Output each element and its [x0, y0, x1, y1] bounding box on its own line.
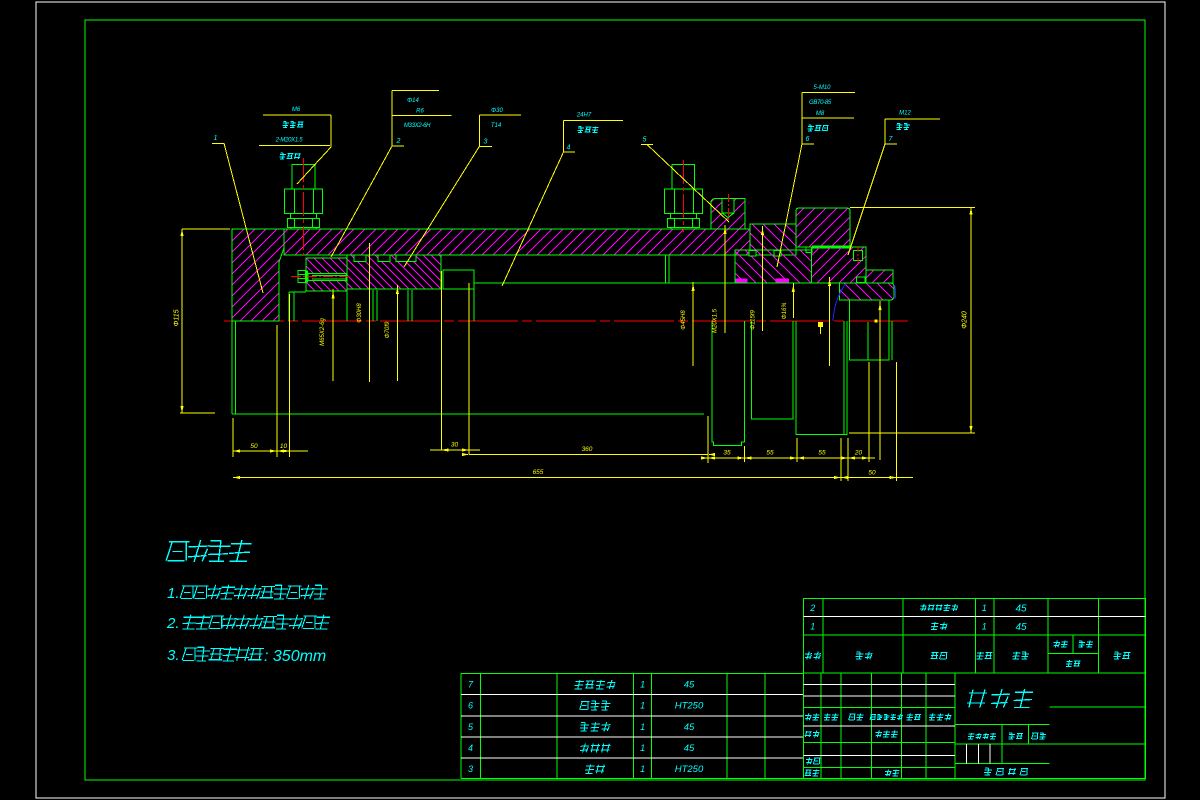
ext line cushion right	[468, 283, 470, 455]
rod seal (magenta)	[735, 278, 747, 283]
svg-text:45: 45	[684, 722, 695, 733]
balloon 4 + spec	[564, 120, 624, 122]
oil port boss on barrel (hatched)	[711, 199, 745, 230]
callout: port 1 thread spec	[263, 114, 331, 116]
svg-text:1: 1	[640, 743, 645, 753]
svg-text:5: 5	[643, 137, 647, 144]
technical requirements title	[166, 540, 252, 562]
piston rod profile	[289, 291, 306, 293]
rod seal 2 (magenta)	[776, 278, 790, 283]
left end cap (hatched section)	[232, 229, 284, 321]
svg-text:4: 4	[468, 743, 473, 753]
svg-text:Φ115f9: Φ115f9	[751, 310, 757, 330]
svg-text:Φ45H8: Φ45H8	[681, 310, 687, 330]
svg-text:2.: 2.	[166, 615, 180, 632]
dim: 30	[430, 449, 480, 451]
svg-text:M65X2-6g: M65X2-6g	[320, 317, 326, 345]
gland nose ring (hatched)	[866, 270, 893, 283]
svg-text:GB70-85: GB70-85	[809, 100, 832, 106]
piston rod left anchor block (hatched)	[306, 258, 347, 291]
svg-text:45: 45	[684, 743, 695, 754]
dimension D240 (right vertical)	[970, 208, 972, 434]
piston retaining bolt	[298, 270, 306, 282]
svg-text:35: 35	[723, 450, 731, 457]
svg-text:R6: R6	[416, 109, 424, 115]
fitting 2 centerline	[682, 160, 684, 232]
svg-text:4: 4	[567, 145, 571, 152]
bolt centerline	[291, 275, 350, 277]
title header row	[805, 652, 821, 660]
svg-text:T14: T14	[491, 123, 502, 129]
svg-text:1: 1	[982, 622, 987, 632]
revision header text	[805, 714, 820, 721]
cylinder barrel wall (hatched strip)	[284, 229, 750, 255]
dim row 2: 35 / 55 / 55 / 20	[704, 457, 875, 459]
svg-text:2: 2	[809, 603, 815, 613]
svg-text:: 350mm: : 350mm	[264, 648, 326, 665]
balloon 6 + spec	[802, 91, 855, 93]
centerline tick	[875, 320, 878, 323]
svg-text:M8: M8	[816, 111, 825, 117]
port hole centerline	[728, 194, 730, 220]
piston rod end nut (hatched)	[839, 283, 894, 300]
barrel outside silhouette (lower half)	[231, 321, 233, 414]
svg-text:1: 1	[982, 603, 987, 613]
drawing name cell: hydraulic cylinder	[967, 689, 1033, 708]
rod surface line	[474, 282, 847, 284]
svg-text:1: 1	[214, 135, 218, 142]
svg-text:1: 1	[640, 701, 645, 711]
svg-text:655: 655	[533, 469, 544, 476]
title block outer	[803, 598, 1145, 778]
rod end nut lower silhouette	[849, 300, 888, 360]
dim line right head	[829, 277, 831, 366]
title block part rows + header columns	[822, 598, 824, 673]
svg-text:3: 3	[484, 139, 488, 146]
svg-text:55: 55	[766, 450, 774, 457]
oil port fitting 1 (left)	[292, 164, 315, 189]
svg-text:HT250: HT250	[675, 764, 704, 775]
parts list table (BOM)	[460, 673, 462, 778]
sleeve seal groove notches	[749, 251, 756, 257]
svg-text:Φ115: Φ115	[174, 309, 181, 326]
cushion collar	[443, 270, 474, 289]
lower silhouette: head mirror	[796, 321, 847, 435]
svg-text:Φ16¾: Φ16¾	[782, 303, 788, 320]
svg-text:Φ14: Φ14	[407, 98, 419, 104]
svg-text:45: 45	[1015, 622, 1027, 633]
svg-text:M20X1.5: M20X1.5	[713, 308, 719, 333]
lower silhouette: port boss mirror	[712, 321, 745, 446]
fitting 1 centerline	[303, 158, 305, 256]
thread run-out spline right (blue)	[895, 285, 896, 299]
guide sleeve / gland body (hatched)	[735, 250, 812, 283]
svg-text:M6: M6	[292, 107, 301, 113]
svg-text:50: 50	[250, 443, 258, 450]
main centerline (red dash-dot)	[224, 320, 908, 322]
ext line cushion left	[440, 271, 442, 450]
piston (hatched)	[347, 255, 441, 289]
svg-text:1: 1	[640, 764, 645, 774]
oil port fitting 2 (right)	[672, 164, 695, 189]
svg-text:2-M20X1.5: 2-M20X1.5	[275, 138, 304, 144]
callout: port 2 spec + balloon 2	[391, 90, 393, 146]
dim row: 50	[233, 450, 308, 452]
svg-text:1: 1	[810, 622, 815, 632]
port thread hole in boss	[722, 199, 734, 214]
dim line D16f7	[792, 283, 794, 318]
svg-text:M12: M12	[899, 111, 911, 117]
dim: 360	[469, 454, 708, 456]
svg-text:Φ240: Φ240	[962, 311, 969, 329]
svg-text:30: 30	[451, 442, 459, 449]
svg-text:6: 6	[806, 136, 810, 143]
balloon 3 + spec	[479, 114, 521, 116]
thread run-out spline (blue)	[833, 283, 846, 321]
svg-text:24H7: 24H7	[576, 113, 592, 119]
head lower section (hatched)	[812, 247, 867, 283]
dim line M20X1.5	[724, 225, 726, 333]
svg-text:1: 1	[640, 722, 645, 732]
set screw tip notch	[856, 277, 865, 283]
dim line D70f9	[396, 285, 398, 381]
ext line nut OD	[879, 301, 881, 460]
svg-text:1.: 1.	[167, 585, 180, 602]
dim line D30H8	[368, 243, 370, 382]
svg-text:45: 45	[684, 680, 695, 691]
svg-text:3.: 3.	[167, 647, 180, 664]
svg-text:Φ30H8: Φ30H8	[357, 303, 363, 323]
svg-text:45: 45	[1015, 604, 1027, 615]
svg-text:2: 2	[396, 138, 401, 145]
lower silhouette: gland flange mirror	[751, 321, 793, 419]
balloon 7 + spec	[885, 118, 940, 120]
svg-text:55: 55	[818, 450, 826, 457]
svg-text:20: 20	[854, 450, 863, 457]
svg-text:1: 1	[640, 680, 645, 690]
svg-text:10: 10	[280, 443, 288, 450]
svg-text:6: 6	[468, 701, 473, 711]
cylinder head flange (hatched, D240)	[796, 208, 850, 247]
dim: 655 overall	[233, 477, 913, 479]
dim line D115f9	[762, 226, 764, 331]
svg-text:360: 360	[582, 446, 593, 453]
piston seal grooves	[354, 255, 366, 262]
sign rows text	[805, 731, 820, 738]
retaining ring groove in bore	[664, 255, 666, 283]
set screw hole in head	[854, 251, 863, 261]
svg-text:3: 3	[468, 764, 473, 774]
svg-text:M33X2-6H: M33X2-6H	[404, 123, 431, 129]
svg-text:Φ70f9: Φ70f9	[385, 321, 391, 338]
datum flag on centerline	[818, 322, 823, 327]
right info cells	[1049, 706, 1145, 708]
dim line D45H8	[692, 282, 694, 366]
svg-text:5-M10: 5-M10	[813, 85, 831, 91]
dimension D115 (left vertical)	[181, 229, 183, 413]
gland flange step (hatched)	[750, 224, 796, 255]
svg-text:HT250: HT250	[675, 701, 704, 712]
svg-text:50: 50	[868, 470, 876, 477]
dim line M65X2-6g	[332, 289, 334, 381]
svg-text:Φ30: Φ30	[491, 108, 503, 114]
revision area rows	[820, 673, 822, 779]
